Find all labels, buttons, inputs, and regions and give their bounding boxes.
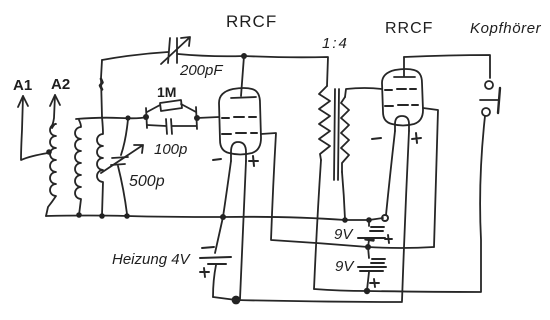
wire V1 filament right leg to heater rail <box>240 161 246 299</box>
antenna A2 arrow <box>51 95 55 127</box>
main filament bus wire <box>46 216 383 221</box>
antenna A1 arrow <box>21 96 48 160</box>
wire RC to tube V1 grid <box>197 117 219 118</box>
node L2 bottom <box>76 212 82 218</box>
wire coil tops to grid RC <box>76 117 146 119</box>
tube V2 filament <box>395 116 409 131</box>
label B1 plus <box>385 235 392 243</box>
wire headphone return <box>367 116 485 292</box>
tube V1 filament <box>231 142 246 161</box>
svg-text:100p: 100p <box>154 141 187 158</box>
wire V1 screen to +9V rail <box>261 133 434 248</box>
node B2 bottom junction <box>364 288 370 294</box>
svg-text:500p: 500p <box>129 173 165 190</box>
knot blob on vertical wire <box>100 79 103 90</box>
variable capacitor 500p <box>121 119 128 155</box>
wire V1 filament left leg to bus <box>223 161 231 217</box>
transformer T1 primary winding <box>319 86 330 160</box>
variable capacitor 200pF <box>168 38 170 63</box>
svg-text:Kopfhörer: Kopfhörer <box>470 20 542 37</box>
svg-text:1M: 1M <box>157 84 176 100</box>
coil L1 antenna coil <box>46 124 56 216</box>
battery B1 9V <box>368 220 370 226</box>
tube V1 anode <box>231 97 256 98</box>
svg-text:1:4: 1:4 <box>322 35 349 52</box>
wire tuning vertical from top wire down to L3 <box>101 60 102 117</box>
svg-text:Heizung 4V: Heizung 4V <box>112 251 192 268</box>
wire V2 filament left leg to bus ring <box>386 131 395 215</box>
battery B3 4V heater <box>215 217 223 253</box>
resistor R1 1M <box>146 108 147 128</box>
tube V1 anode lead <box>241 56 244 96</box>
battery B2 9V <box>368 247 369 258</box>
node heater rail junction <box>232 296 241 305</box>
headphone terminal upper <box>485 81 493 89</box>
svg-text:RRCF: RRCF <box>226 12 277 31</box>
label V1 plus <box>249 156 258 166</box>
tube V2 screen dashes <box>385 105 418 106</box>
tube V2 envelope <box>382 69 423 126</box>
wire V2 screen to +9V rail <box>423 108 438 247</box>
svg-text:A2: A2 <box>51 76 70 93</box>
transformer T1 secondary winding <box>341 97 349 172</box>
node L3 bottom <box>99 213 105 219</box>
label B3 plus <box>200 268 209 277</box>
tube V1 grid dashes <box>222 117 256 118</box>
wire anode node to transformer primary top <box>244 56 328 86</box>
node V1 filament bus junction <box>220 214 226 220</box>
label V2 minus <box>372 138 381 139</box>
node bus end ring <box>382 215 388 221</box>
svg-text:9V: 9V <box>335 258 355 275</box>
tube V2 anode <box>394 76 415 78</box>
wire output rail bottom <box>314 289 367 291</box>
wire secondary bottom to bus <box>342 172 345 219</box>
coil L3 <box>97 117 103 215</box>
node 500p bottom <box>124 213 130 219</box>
wire top left (tuning cap left) <box>102 52 168 60</box>
wire V2 anode to headphone <box>404 55 490 78</box>
wire heater bottom rail <box>213 297 402 302</box>
label B2 plus <box>370 279 379 287</box>
capacitor C2 100p <box>196 107 197 129</box>
svg-text:RRCF: RRCF <box>385 20 433 37</box>
wire secondary top to V2 grid <box>345 88 382 97</box>
headphone terminal lower <box>482 108 490 116</box>
tube V2 grid dashes <box>385 89 416 90</box>
wire primary bottom to output rail <box>314 160 321 289</box>
headphone jack contact <box>480 99 498 101</box>
wire tuning cap to anode node <box>178 54 244 56</box>
label V2 plus <box>412 133 421 143</box>
svg-text:200pF: 200pF <box>179 62 223 79</box>
tube V1 screen dashes <box>222 133 257 134</box>
node A1 tap on L1 <box>46 149 52 155</box>
label V1 minus <box>213 159 221 160</box>
wire V2 filament right leg to heater rail <box>402 131 409 301</box>
coil L2 <box>75 120 81 215</box>
svg-text:9V: 9V <box>334 226 354 243</box>
node secondary bus junction <box>342 217 348 223</box>
node grid tap <box>125 115 130 120</box>
node battery B1 bus junction <box>366 217 372 223</box>
tube V1 envelope <box>219 88 261 155</box>
node B1 B2 junction <box>365 244 371 250</box>
node RC left <box>143 114 149 120</box>
transformer T1 core <box>334 89 339 180</box>
svg-text:A1: A1 <box>13 77 32 94</box>
node anode junction <box>241 53 247 59</box>
node RC right <box>194 115 200 121</box>
tube V2 anode lead <box>403 57 405 76</box>
